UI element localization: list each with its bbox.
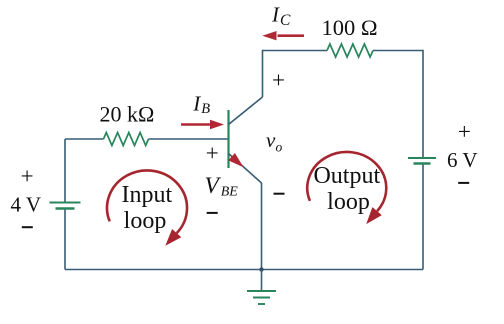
battery 6V plates [408,157,436,159]
svg-text:4 V: 4 V [11,193,42,217]
svg-text:loop: loop [124,208,167,234]
wire top: collector node to 100-ohm resistor [263,51,328,98]
current arrow IB [181,123,212,126]
resistor 100 Ohm [327,44,373,57]
svg-text:C: C [280,12,291,29]
svg-text:v: v [266,128,276,152]
svg-text:100 Ω: 100 Ω [322,15,378,40]
wire base: 20k resistor to transistor base [149,138,229,140]
svg-text:6 V: 6 V [447,148,478,172]
junction emitter-bottom wire [260,268,264,272]
wire top right: resistor to right corner and down to 6V battery [373,51,423,158]
svg-text:I: I [271,2,280,26]
svg-text:Output: Output [313,163,380,189]
svg-text:+: + [272,68,285,93]
svg-text:loop: loop [327,189,370,215]
svg-text:o: o [276,140,283,155]
battery 4V plates [50,202,81,204]
wire ground stub [261,270,263,292]
output loop arrow [307,152,386,211]
transistor Q1 emitter diagonal [229,154,262,184]
wire left: top-left corner down to 4V battery [64,139,66,202]
svg-text:I: I [192,91,201,115]
ground [247,290,276,292]
transistor Q1 collector diagonal [229,97,263,125]
svg-text:20 kΩ: 20 kΩ [100,102,155,127]
resistor 20 kOhm [104,133,149,146]
input loop arrow [107,170,187,233]
transistor Q1 base bar [227,110,229,168]
svg-text:+: + [458,119,471,144]
svg-text:V: V [205,173,222,199]
svg-text:B: B [201,101,210,117]
svg-text:+: + [21,164,34,189]
svg-text:BE: BE [221,184,239,199]
svg-text:+: + [206,140,219,165]
wire left: 4V battery to bottom-left corner [64,210,66,270]
current arrow IC [278,34,305,37]
wire right: 6V battery bottom to bottom-right corner [422,164,424,270]
transistor Q1 emitter arrowhead [228,153,243,167]
wire base: left corner to 20k resistor [65,138,104,140]
wire bottom [65,269,423,271]
svg-text:Input: Input [121,182,172,208]
wire emitter vertical to bottom wire [261,183,263,270]
